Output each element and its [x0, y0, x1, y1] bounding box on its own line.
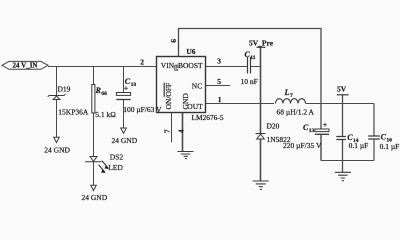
svg-text:LM2676-5: LM2676-5 — [192, 113, 224, 122]
svg-text:NC: NC — [192, 81, 202, 90]
svg-text:24 GND: 24 GND — [82, 193, 108, 202]
svg-text:D19: D19 — [58, 84, 71, 93]
svg-text:100 µF/63 V: 100 µF/63 V — [123, 105, 162, 114]
svg-text:6: 6 — [169, 39, 178, 43]
svg-text:10 nF: 10 nF — [241, 77, 258, 86]
svg-text:68 µH/1.2 A: 68 µH/1.2 A — [277, 108, 315, 117]
svg-text:5V_Pre: 5V_Pre — [249, 39, 274, 48]
svg-text:4: 4 — [177, 129, 185, 133]
svg-text:GND: GND — [181, 93, 190, 110]
svg-text:D20: D20 — [267, 122, 280, 131]
svg-text:14: 14 — [353, 138, 359, 144]
svg-text:11: 11 — [250, 55, 255, 61]
svg-text:3: 3 — [217, 57, 221, 66]
svg-text:1: 1 — [218, 95, 222, 104]
svg-text:7: 7 — [290, 93, 293, 99]
svg-text:FB: FB — [174, 64, 180, 71]
svg-text:+: + — [323, 120, 328, 129]
svg-text:5.1 kΩ: 5.1 kΩ — [95, 110, 116, 119]
svg-text:7: 7 — [163, 129, 171, 133]
svg-text:10: 10 — [131, 82, 137, 88]
svg-text:66: 66 — [101, 91, 107, 97]
svg-text:U6: U6 — [186, 47, 195, 56]
svg-text:+: + — [124, 84, 129, 93]
svg-text:5V: 5V — [337, 84, 347, 93]
svg-text:ON/OFF: ON/OFF — [164, 83, 173, 110]
svg-text:15KP36A: 15KP36A — [58, 108, 89, 117]
svg-text:13: 13 — [309, 128, 315, 134]
svg-text:2: 2 — [140, 57, 144, 66]
svg-text:DS2: DS2 — [110, 152, 124, 161]
svg-text:L: L — [284, 88, 290, 97]
svg-text:16: 16 — [386, 138, 392, 144]
svg-text:220 µF/35 V: 220 µF/35 V — [283, 141, 322, 150]
svg-text:5: 5 — [217, 77, 221, 86]
svg-text:24 GND: 24 GND — [112, 136, 138, 145]
svg-text:LED: LED — [108, 163, 123, 172]
svg-text:BOOST: BOOST — [178, 61, 203, 70]
svg-text:24 GND: 24 GND — [44, 145, 70, 154]
svg-text:VIN: VIN — [161, 61, 175, 70]
svg-text:24 V_IN: 24 V_IN — [13, 62, 38, 70]
